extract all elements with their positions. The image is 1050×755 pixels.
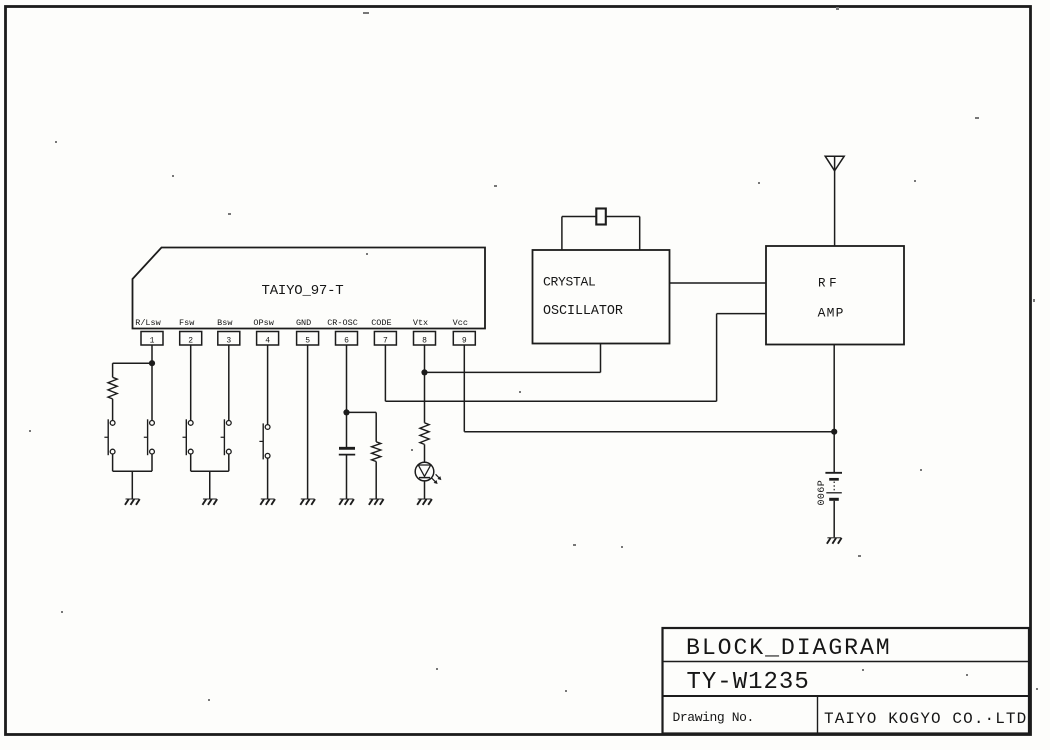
svg-text:RF: RF xyxy=(818,276,840,290)
svg-text:2: 2 xyxy=(188,337,193,346)
wire bus to ground xyxy=(209,471,211,498)
wire node D down to battery xyxy=(833,432,835,472)
wire S5 to ground xyxy=(267,458,269,498)
svg-text:Bsw: Bsw xyxy=(217,318,233,328)
resistor R2 xyxy=(372,442,381,462)
resistor R1 xyxy=(108,377,117,399)
wire pin1 down to node A xyxy=(151,345,153,363)
pin 5 tab xyxy=(297,332,319,346)
node B junction xyxy=(343,409,349,415)
pin 8 tab xyxy=(414,332,436,346)
wire crystal loop right xyxy=(639,217,641,251)
svg-text:006P: 006P xyxy=(817,480,828,506)
battery BT1 006P xyxy=(825,473,842,500)
wire pin5 GND to ground xyxy=(307,345,309,499)
push switch S2 xyxy=(144,419,155,455)
wire node B right to resistor R2 xyxy=(347,411,377,413)
svg-text:6: 6 xyxy=(344,337,349,346)
svg-text:5: 5 xyxy=(305,337,310,346)
wire C1 to ground xyxy=(346,455,348,499)
wire crystal loop top left xyxy=(562,216,596,218)
wire R1 to switch S1 xyxy=(112,399,114,421)
svg-text:OSCILLATOR: OSCILLATOR xyxy=(543,304,623,319)
svg-text:BLOCK_DIAGRAM: BLOCK_DIAGRAM xyxy=(686,635,892,661)
pin 2 tab xyxy=(180,332,202,346)
antenna xyxy=(825,156,844,171)
ground (battery) xyxy=(827,538,842,544)
LED D1 emission arrows xyxy=(432,474,442,484)
svg-text:CRYSTAL: CRYSTAL xyxy=(543,275,596,290)
wire Vcc horizontal to battery node xyxy=(464,431,834,433)
capacitor C1 xyxy=(339,448,355,454)
wire up to crystal oscillator bottom pin xyxy=(600,344,602,373)
wire battery to ground xyxy=(833,501,835,538)
svg-text:CR-OSC: CR-OSC xyxy=(327,318,358,328)
wire R3 to LED D1 xyxy=(424,444,426,462)
pin 1 tab xyxy=(141,332,163,346)
wire bus joining S1 S2 xyxy=(113,470,152,472)
pin 4 tab xyxy=(257,332,279,346)
ground (pin1 switches) xyxy=(125,499,140,505)
RF amp block xyxy=(766,246,904,345)
svg-text:R/Lsw: R/Lsw xyxy=(135,318,161,328)
wire node B to capacitor C1 xyxy=(346,412,348,447)
wire pin2 down to switch S3 xyxy=(190,345,192,421)
crystal oscillator block xyxy=(533,250,670,344)
pin 9 tab xyxy=(453,332,475,346)
wire node C down to resistor R3 xyxy=(424,372,426,422)
title block xyxy=(663,628,1030,734)
wire node C right toward crystal oscillator xyxy=(425,371,601,373)
wire CODE up xyxy=(716,314,718,402)
wire down to R2 xyxy=(375,412,377,441)
ground (LED D1) xyxy=(417,499,432,505)
wire R2 to ground xyxy=(375,462,377,499)
pin 7 tab xyxy=(374,332,396,346)
crystal X1 xyxy=(596,209,606,225)
wire pin4 down to switch S5 xyxy=(267,345,269,425)
wire bus to ground xyxy=(131,471,133,498)
svg-text:TAIYO_97-T: TAIYO_97-T xyxy=(262,283,344,299)
wire node A to left branch xyxy=(113,362,152,364)
svg-text:4: 4 xyxy=(265,337,270,346)
wire pin6 down to node B xyxy=(346,345,348,412)
ground (resistor R2) xyxy=(369,499,384,505)
wire pin7 CODE down xyxy=(384,345,386,401)
LED D1 xyxy=(415,462,434,481)
node C junction xyxy=(421,369,427,375)
svg-text:GND: GND xyxy=(296,318,311,328)
svg-text:3: 3 xyxy=(226,337,231,346)
wire crystal loop left xyxy=(561,217,563,251)
wire CODE horizontal run xyxy=(385,400,716,402)
wire bus joining S3 S4 xyxy=(191,470,229,472)
svg-text:AMP: AMP xyxy=(818,306,845,321)
svg-text:1: 1 xyxy=(150,337,155,346)
wire pin8 Vtx down to node C xyxy=(424,345,426,372)
svg-text:8: 8 xyxy=(422,337,427,346)
IC U1 TAIYO_97-T body xyxy=(133,248,486,329)
wire pin3 down to switch S4 xyxy=(228,345,230,421)
wire pin9 Vcc down xyxy=(463,345,465,432)
svg-text:Fsw: Fsw xyxy=(179,318,195,328)
ground (pin5 GND) xyxy=(300,499,315,505)
wire S2 bottom to bus xyxy=(151,454,153,471)
resistor R3 xyxy=(420,423,429,445)
svg-text:7: 7 xyxy=(383,337,388,346)
pin 6 tab xyxy=(336,332,358,346)
svg-text:9: 9 xyxy=(462,337,467,346)
svg-text:TAIYO KOGYO CO.·LTD: TAIYO KOGYO CO.·LTD xyxy=(824,710,1027,728)
push switch S4 xyxy=(221,419,232,455)
svg-text:Vcc: Vcc xyxy=(453,318,468,328)
push switch S3 xyxy=(183,419,194,455)
wire left branch down to resistor R1 xyxy=(112,363,114,377)
push switch S1 xyxy=(104,419,115,455)
node A junction xyxy=(149,360,155,366)
wire S4 bottom to bus xyxy=(228,454,230,471)
wire CODE into RF amp xyxy=(717,313,766,315)
push switch S5 xyxy=(259,423,270,459)
wire D1 to ground xyxy=(424,481,426,499)
ground (capacitor C1) xyxy=(339,499,354,505)
wire RF amp down to node D xyxy=(833,345,835,432)
wire antenna lead xyxy=(834,156,836,246)
wire crystal loop top right xyxy=(606,216,640,218)
node D junction xyxy=(831,429,837,435)
ground (pin4 switch) xyxy=(260,499,275,505)
pin 3 tab xyxy=(218,332,240,346)
wire crystal oscillator output to RF amp xyxy=(670,282,767,284)
wire node A down to switch S2 xyxy=(151,363,153,420)
svg-text:Vtx: Vtx xyxy=(413,318,428,328)
ground (pin2-3 switches) xyxy=(202,499,217,505)
svg-text:TY-W1235: TY-W1235 xyxy=(687,669,810,696)
wire S1 bottom to bus xyxy=(112,454,114,471)
svg-text:CODE: CODE xyxy=(371,318,391,328)
wire S3 bottom to bus xyxy=(190,454,192,471)
svg-text:Drawing No.: Drawing No. xyxy=(673,710,754,725)
svg-text:OPsw: OPsw xyxy=(253,318,274,328)
